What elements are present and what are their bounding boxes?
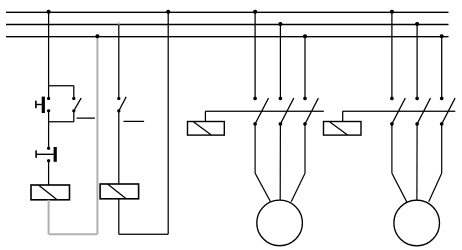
wire: motor2 lead 3 slant xyxy=(429,173,442,202)
node: rung1 tap on L1 xyxy=(47,10,51,14)
operator block KM2 xyxy=(324,122,362,136)
wire: motor1 lead 1 vertical xyxy=(254,124,256,173)
motor M1 xyxy=(257,200,303,246)
contactor KM1 power pole 1 xyxy=(253,97,268,126)
wire: branch to aux contact xyxy=(73,86,75,99)
operator block KM1 xyxy=(188,122,225,136)
wire: motor2 lead 2 xyxy=(416,124,418,200)
wire: motor1 lead 3 vertical xyxy=(304,124,306,173)
contact KM2 (NO) xyxy=(117,97,126,113)
wire: gray return up to L3 xyxy=(96,37,98,235)
wire: phase drop 1 xyxy=(254,12,256,97)
contactor KM2 power pole 3 xyxy=(440,97,455,126)
contactor KM2 power pole 1 xyxy=(390,97,405,126)
wire: motor1 lead 2 xyxy=(279,124,281,200)
contactor KM2 power pole 2 xyxy=(415,97,430,126)
mechanical link of contactor KM2 xyxy=(343,110,456,112)
wire: return horizontal to riser xyxy=(119,233,168,235)
wire: PB1 to branch bottom xyxy=(48,111,50,122)
wire: phase drop 2 xyxy=(279,25,281,98)
mechanical link of contactor KM1 xyxy=(205,110,323,112)
node: rung2 tap on L2 (faint) xyxy=(118,22,120,24)
contactor KM1 power pole 2 xyxy=(279,97,294,126)
motor M2 xyxy=(394,200,440,246)
bus line L2 xyxy=(6,24,449,26)
wire: phase drop 3 xyxy=(304,37,306,97)
wire: motor2 lead 1 vertical xyxy=(391,124,393,173)
wire: return from coil KM2 (down) xyxy=(118,199,120,235)
contactor KM1 power pole 3 xyxy=(303,97,318,126)
pushbutton PB2 (stop, NC) xyxy=(35,147,57,163)
link stub to operator KM2 xyxy=(342,111,344,121)
wire: gray return from coil KM1 (down) xyxy=(48,200,50,235)
wire: branch bottom xyxy=(49,121,74,123)
wire: contact KM2 to coil KM2 xyxy=(118,111,120,184)
node: return tap on L1 xyxy=(166,10,170,14)
wire: branch top xyxy=(49,85,74,87)
node: motor2 phase tap on L3 xyxy=(440,34,444,38)
actuator dash of contact KM2 xyxy=(124,120,145,122)
bus line L1 xyxy=(6,11,449,13)
node: motor1 phase tap on L3 xyxy=(303,34,307,38)
node: motor2 phase tap on L2 xyxy=(415,22,419,26)
wire: PB2 to coil KM1 xyxy=(48,161,50,185)
wire: motor2 lead 3 vertical xyxy=(441,124,443,173)
wire: aux contact lower xyxy=(73,111,75,122)
coil KM1 xyxy=(31,185,70,200)
wire: phase drop 4 xyxy=(391,12,393,97)
wire: branch to PB2 xyxy=(48,122,50,149)
node: motor1 phase tap on L2 xyxy=(278,22,282,26)
contact KM1 aux (holding, NO) xyxy=(72,97,81,113)
pushbutton PB1 (start, NO) xyxy=(35,97,50,113)
wire: gray return horizontal xyxy=(49,233,98,235)
node: motor2 phase tap on L1 xyxy=(390,10,394,14)
node: return tap on L3 xyxy=(95,34,99,38)
link stub to operator KM1 xyxy=(204,111,206,121)
wire: return riser up to L1 xyxy=(167,12,169,234)
wire: motor1 lead 1 slant xyxy=(255,173,271,202)
wire: rung1 drop from L1 xyxy=(48,12,50,85)
node: motor1 phase tap on L1 xyxy=(253,10,257,14)
wire: branch top to PB1 xyxy=(48,86,50,99)
wire: phase drop 6 xyxy=(441,37,443,97)
wire: phase drop 5 xyxy=(416,25,418,98)
wire: motor2 lead 1 slant xyxy=(392,173,407,202)
actuator dash of aux contact xyxy=(77,117,95,119)
wire: rung2 drop from L2 xyxy=(118,25,120,99)
coil KM2 xyxy=(100,184,139,199)
wire: motor1 lead 3 slant xyxy=(291,173,305,202)
bus line L3 xyxy=(6,36,449,38)
